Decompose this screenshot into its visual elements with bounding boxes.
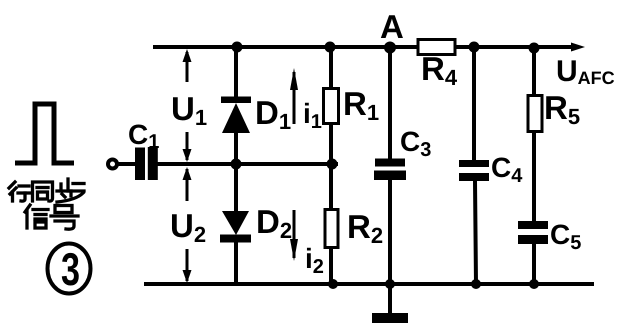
svg-text:A: A	[380, 8, 404, 45]
svg-text:3: 3	[61, 243, 80, 295]
